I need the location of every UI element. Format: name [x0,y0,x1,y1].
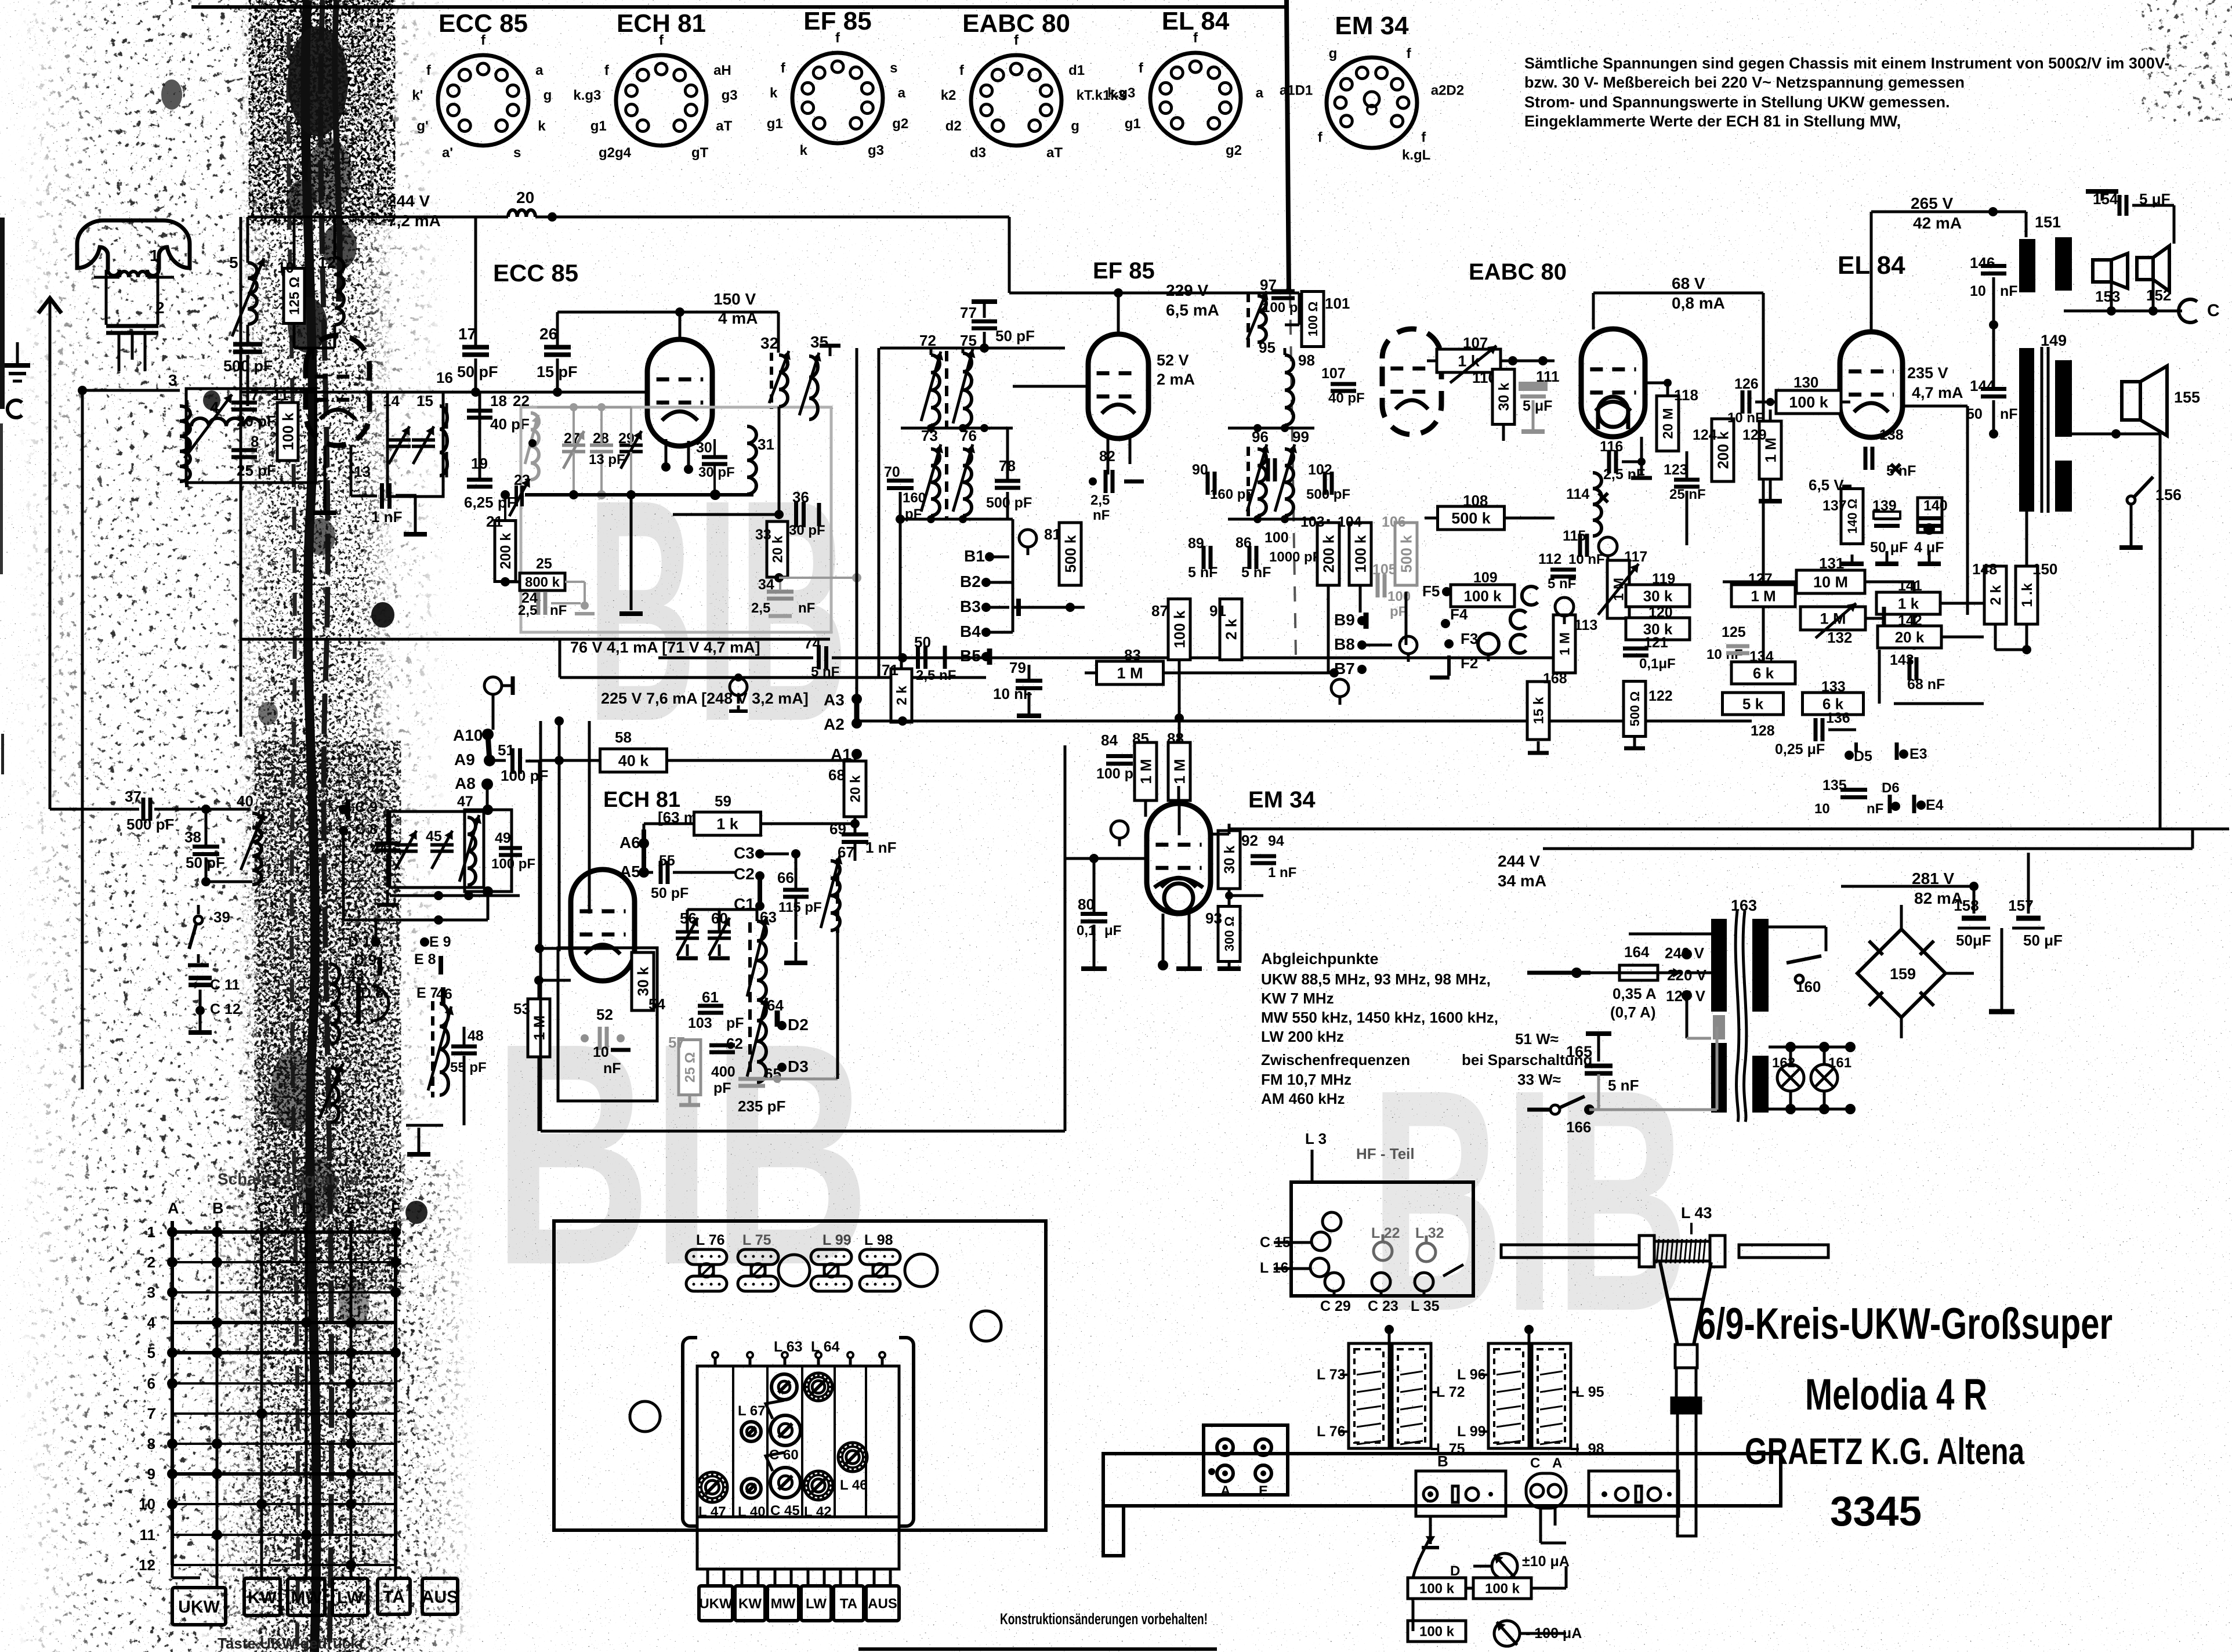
svg-text:100 k: 100 k [1171,610,1188,649]
junction [548,212,557,222]
svg-text:98: 98 [1298,352,1315,369]
svg-text:123: 123 [1664,462,1688,478]
wire grid drop 1016 [588,721,591,914]
svg-text:500 Ω: 500 Ω [1628,691,1642,726]
svg-text:46: 46 [436,986,452,1002]
cap 107b 40pF [1331,382,1356,386]
cap 62 400pF [709,1044,735,1048]
svg-text:161: 161 [1828,1055,1851,1071]
coil can pin group2 [1528,1332,1531,1343]
IF transformer 76 [963,449,972,516]
IF transformer 73 [931,449,940,516]
wire meas from B [1429,1516,1432,1537]
coil 32 [779,355,788,407]
svg-text:Sämtliche Spannungen sind gege: Sämtliche Spannungen sind gegen Chassis … [1524,55,2169,72]
svg-text:LW 200 kHz: LW 200 kHz [1261,1028,1344,1045]
wire speaker bus C [2064,310,2182,313]
svg-text:C 23: C 23 [1368,1298,1398,1314]
svg-text:30 pF: 30 pF [698,465,735,480]
svg-text:52: 52 [596,1006,613,1023]
coil 43 [331,964,339,1044]
svg-text:159: 159 [1890,965,1916,983]
svg-text:B: B [1437,1452,1448,1470]
osc coil 64 [757,1000,766,1082]
svg-text:L 76: L 76 [696,1232,725,1248]
cap 138 5nF [1864,447,1868,470]
svg-text:229 V: 229 V [1166,281,1208,299]
wire 148-150 [1995,434,1996,566]
wire cathode down [324,445,327,510]
svg-text:40 k: 40 k [618,752,650,770]
svg-text:L 95: L 95 [1575,1384,1604,1400]
button AUS 2 [866,1586,899,1621]
svg-text:97: 97 [1260,276,1277,294]
wires 44-49 bottom [390,894,520,897]
svg-text:51: 51 [498,741,514,759]
cap 158 50uF [1962,916,1986,921]
coil 12 [335,258,344,325]
svg-text:200 k: 200 k [1714,431,1731,469]
svg-text:B7: B7 [1334,660,1355,678]
svg-text:148: 148 [1972,560,1997,578]
svg-text:D 9: D 9 [354,952,376,969]
svg-text:50 μF: 50 μF [1870,539,1908,556]
svg-text:35: 35 [810,333,828,351]
svg-text:120: 120 [1648,604,1673,621]
wire osc to D [750,1078,838,1081]
svg-text:1 k: 1 k [1898,595,1919,612]
svg-text:4: 4 [210,398,219,416]
svg-text:Zwischenfrequenzen: Zwischenfrequenzen [1261,1051,1410,1068]
svg-text:20 M: 20 M [1661,408,1676,439]
terminal D6 [1891,802,1900,811]
resistor 110 30k [1492,369,1514,425]
cap 157 50uF [2016,916,2041,921]
wires feedback net [1795,672,1879,673]
wire left rail bottom [79,808,139,811]
resistor 87 100k [1168,599,1190,660]
tuner box [697,1366,899,1517]
trimmer 56 [676,930,699,934]
resistor 130 100k [1776,390,1841,414]
wire bus 76V [658,657,813,660]
svg-text:C3: C3 [734,844,755,862]
cap 49 100pF [499,846,522,850]
transformer 163 core [1735,911,1739,1122]
tap 240V [1682,949,1692,959]
svg-text:1 M: 1 M [1137,759,1154,784]
wire EL84 cath [1858,437,1860,499]
coil 114 [1593,473,1601,536]
svg-text:C: C [2207,301,2220,320]
svg-text:113: 113 [1574,617,1597,633]
coil 5 [248,263,257,324]
wire speaker drop [2146,433,2160,436]
coil can L73 [1349,1343,1389,1448]
svg-text:g2: g2 [1226,143,1242,158]
svg-text:13 pF: 13 pF [589,452,625,468]
button AUS [422,1578,458,1614]
wire to transformer 3 [82,389,180,392]
big section box bottom [541,1130,1065,1133]
fuse 164 [1619,965,1658,980]
svg-text:7: 7 [251,386,259,404]
cap 24 2,5nF [537,592,541,615]
antenna mast [1676,1368,1696,1398]
svg-text:3: 3 [168,371,177,389]
cap 7 20pF [231,401,257,405]
svg-text:500 k: 500 k [1061,535,1079,573]
svg-text:23: 23 [514,472,530,488]
scan speckle band mid [261,766,394,1265]
svg-text:61: 61 [702,988,719,1006]
scan blobs [288,26,348,136]
wire anode up [313,359,338,360]
svg-text:20 k: 20 k [770,535,786,563]
svg-text:5: 5 [229,253,238,271]
svg-text:g': g' [416,118,428,134]
svg-text:GRAETZ K.G. Altena: GRAETZ K.G. Altena [1745,1430,2024,1472]
svg-text:A6: A6 [619,834,640,852]
svg-text:5 k: 5 k [1742,695,1764,712]
svg-text:8: 8 [251,433,259,450]
hole 4 chassis [630,1401,660,1432]
svg-text:C 9: C 9 [355,799,378,816]
svg-text:235 pF: 235 pF [738,1097,785,1115]
svg-text:1: 1 [147,1223,155,1241]
EABC80 triode tube [1581,329,1645,437]
svg-text:104: 104 [1338,514,1362,530]
switch 39 [197,905,200,914]
svg-text:nF: nF [2000,406,2018,422]
svg-text:140: 140 [1923,498,1948,514]
cap 123 25nF [1674,478,1700,482]
svg-text:139: 139 [1872,498,1897,514]
resistor 133 6k [1803,693,1864,715]
svg-text:76 V 4,1 mA [71 V 4,7 mA]: 76 V 4,1 mA [71 V 4,7 mA] [570,639,760,656]
wire grid EL84 [1850,401,1851,403]
svg-text:3: 3 [147,1284,155,1301]
svg-text:Strom- und Spannungswerte in S: Strom- und Spannungswerte in Stellung UK… [1524,93,1950,111]
tap 127V [1682,990,1692,1001]
antenna symbol arrow [38,298,61,313]
svg-text:15 k: 15 k [1531,697,1547,724]
svg-text:d2: d2 [945,118,962,134]
svg-text:f: f [1407,46,1412,61]
svg-text:53: 53 [513,1000,530,1017]
wire down 87 88 [1178,660,1181,742]
cap 74 5nF [817,646,821,669]
button TA [378,1578,410,1614]
svg-text:100 k: 100 k [1351,535,1369,573]
cap 80 0,1uF [1081,912,1107,916]
cap 86 5nF [1248,546,1252,569]
svg-text:50 pF: 50 pF [651,885,689,901]
svg-text:3345: 3345 [1830,1488,1922,1535]
svg-text:31: 31 [758,436,774,453]
wire A8 down [561,829,562,900]
wire grid line [556,358,559,392]
svg-text:D: D [302,1200,313,1217]
svg-text:17: 17 [458,325,476,343]
svg-text:2: 2 [155,299,165,317]
svg-text:s: s [890,60,897,76]
resistor 93 300Ω [1218,907,1240,962]
svg-text:k2: k2 [941,88,956,103]
svg-text:102: 102 [1308,462,1332,478]
input coil 4 [191,418,261,426]
cap 6 500pF [233,342,262,347]
svg-text:80: 80 [1078,896,1095,913]
coil can L96 [1488,1343,1529,1448]
svg-text:Melodia 4 R: Melodia 4 R [1805,1370,1987,1419]
svg-text:12: 12 [139,1556,155,1574]
svg-text:E 9: E 9 [429,934,451,950]
chassis rail [1103,1454,1781,1506]
svg-text:44: 44 [371,841,387,857]
wires IF right [1247,293,1250,296]
IF coil 95 [1258,296,1266,342]
osc coil 67 [831,861,840,930]
svg-text:Konstruktionsänderungen vorbeh: Konstruktionsänderungen vorbehalten! [1000,1610,1208,1628]
coil L98 top [860,1249,900,1265]
svg-text:49: 49 [495,830,511,846]
knob top L63 [771,1374,797,1400]
cap 79 10nF [1016,679,1042,683]
tuner bracket left [683,1338,697,1526]
page left edge mark [0,218,5,409]
resistor 109 100k [1451,585,1514,607]
tube socket EF 85 [792,53,883,143]
svg-text:100: 100 [1264,530,1289,546]
svg-text:bzw. 30 V- Meßbereich bei 220: bzw. 30 V- Meßbereich bei 220 V~ Netzspa… [1524,74,1965,91]
wire EABC anode [1592,293,1595,329]
wire 38-40 bottom [206,881,252,883]
jack A10 line [484,677,502,694]
knob top L64 dark [805,1373,832,1401]
tuner columns [732,1366,734,1517]
wire grid to box [306,389,316,392]
box 14-16 [387,392,443,497]
svg-text:100 Ω: 100 Ω [1306,302,1320,336]
cap 97 100pF [1271,289,1295,294]
svg-text:15: 15 [416,392,433,410]
svg-text:138: 138 [1879,427,1904,443]
cap 18 40pF [467,409,492,413]
button MW [288,1578,325,1615]
svg-text:F4: F4 [1450,606,1468,623]
resistor 88 1M [1168,742,1190,800]
wire 106 gray [1405,522,1407,586]
svg-text:LW: LW [806,1596,827,1612]
resistor 10 125Ω [284,269,305,324]
cap 37 500pF [142,798,146,821]
svg-text:L 67: L 67 [738,1403,766,1419]
resistor 141 1k [1876,592,1940,614]
svg-text:83: 83 [1124,646,1141,664]
svg-text:g1: g1 [767,116,783,132]
svg-text:166: 166 [1566,1118,1591,1136]
svg-text:KW: KW [738,1596,762,1612]
transformer 151 winding A [2019,239,2035,292]
svg-text:F2: F2 [1461,654,1478,672]
svg-text:EF 85: EF 85 [1093,258,1155,284]
svg-text:ECC 85: ECC 85 [493,259,578,287]
HF-Teil box [1291,1182,1473,1296]
pot 107 1k [1437,349,1501,372]
svg-text:5 μF: 5 μF [1523,398,1552,414]
button KW 2 [735,1586,765,1621]
svg-text:42 mA: 42 mA [1913,214,1962,232]
svg-text:nF: nF [2000,283,2018,299]
varcap 45 [430,843,454,847]
svg-text:d1: d1 [1068,63,1085,78]
cap 111 5uF [1520,387,1546,391]
svg-text:129: 129 [1742,427,1767,443]
svg-text:500 k: 500 k [1451,510,1491,527]
svg-text:L 72: L 72 [1436,1384,1465,1400]
svg-text:126: 126 [1734,376,1759,392]
svg-text:MW: MW [771,1596,796,1612]
svg-text:68 V: 68 V [1672,274,1705,292]
speaker 153 [2093,260,2111,282]
switch matrix grid [171,1221,174,1565]
svg-text:C 8: C 8 [355,821,378,838]
svg-text:B1: B1 [964,547,985,565]
svg-text:10 nF: 10 nF [993,685,1032,702]
wire speaker down [2146,434,2147,464]
cap 116 2,5nF [1607,450,1611,473]
svg-text:68: 68 [828,766,845,784]
svg-text:150 V: 150 V [713,290,756,308]
svg-text:117: 117 [1624,549,1647,565]
coil L99 top [811,1249,852,1265]
section box left edge [539,721,542,1131]
cap 78 500pF [995,479,1020,483]
svg-text:50μF: 50μF [1956,932,1991,949]
wire antenna down [81,390,84,1089]
svg-text:1 M: 1 M [530,1015,548,1040]
resistor 59 1k [694,812,761,835]
coil L76 top [686,1249,727,1265]
meter uA100 [1494,1621,1520,1646]
svg-text:k: k [800,143,808,158]
cap 36 30pF [673,513,779,516]
svg-text:A: A [1552,1455,1562,1471]
svg-text:160: 160 [903,490,926,506]
wire B3 junction [1013,606,1085,609]
wire A5 right [644,871,653,874]
varcap 44 [394,843,418,847]
svg-text:20: 20 [516,189,534,206]
resistor 25 800k [520,573,565,590]
svg-text:235 V: 235 V [1907,364,1948,382]
svg-text:90: 90 [1192,462,1208,478]
cap 26 15pF [544,345,571,350]
svg-text:2 mA: 2 mA [1157,371,1195,388]
svg-text:300 Ω: 300 Ω [1222,916,1237,951]
svg-text:168: 168 [1543,671,1567,687]
svg-text:68 nF: 68 nF [1907,676,1945,693]
gray top bus [537,406,631,408]
wire right vert 1515 [878,348,881,678]
svg-text:MW 550 kHz, 1450 kHz, 160: MW 550 kHz, 1450 kHz, 1600 kHz, [1261,1009,1498,1026]
trimmer box 44-45 [390,811,484,887]
connector box B [1416,1471,1506,1516]
svg-text:0,1μF: 0,1μF [1639,656,1676,672]
svg-text:50: 50 [914,633,931,651]
svg-text:L 99: L 99 [822,1232,852,1248]
wire EL84 anode [1870,212,1873,332]
svg-text:L 64: L 64 [811,1339,840,1355]
cap 115 10nF [1578,534,1582,557]
svg-text:L 35: L 35 [1411,1298,1440,1314]
svg-text:160: 160 [1796,978,1821,995]
svg-text:21: 21 [486,513,503,530]
scan speckle grid zone [197,1160,476,1652]
svg-text:115 pF: 115 pF [778,900,822,915]
svg-text:B3: B3 [960,597,981,615]
svg-text:142: 142 [1898,613,1922,629]
svg-text:131: 131 [1819,555,1844,572]
cap 125 10nF [1726,644,1749,649]
wire 110 down [1502,425,1505,441]
svg-text:155: 155 [2174,389,2200,406]
button UKW [172,1588,226,1625]
coil 40 [252,813,262,885]
svg-text:f: f [1318,130,1323,146]
resistor 118 20M [1657,396,1679,451]
svg-text:25: 25 [536,556,552,572]
IF transformer 75 [963,353,972,427]
wire EM34 top [1177,786,1180,803]
hole 1 chassis [778,1255,810,1286]
svg-text:74: 74 [804,635,821,652]
cap 19 6,25pF [467,478,492,482]
cap 140 4uF [1916,516,1942,520]
svg-text:B5: B5 [960,647,981,665]
svg-text:5 nF: 5 nF [1188,564,1218,581]
svg-text:10: 10 [139,1495,155,1513]
oscillator shield box [521,407,831,632]
svg-text:107: 107 [1463,334,1488,352]
trimmer 28 [590,444,613,447]
svg-text:101: 101 [1325,295,1350,312]
HF slash [1443,1265,1463,1276]
cap 69 1nF [842,832,868,836]
svg-text:±10 μA: ±10 μA [1522,1553,1570,1570]
cap C11 [198,970,199,978]
svg-text:g2g4: g2g4 [599,145,632,161]
wire A2 bus [857,720,1752,723]
svg-text:(0,7 A): (0,7 A) [1610,1003,1656,1021]
svg-text:F3: F3 [1461,630,1478,647]
svg-text:f: f [481,32,486,48]
svg-text:146: 146 [1970,254,1995,271]
svg-text:D6: D6 [1882,780,1900,796]
button UKW 2 [699,1586,733,1621]
transformer 163 sec bottom [1752,1056,1769,1113]
cap 30 30pF [702,455,727,459]
svg-text:119: 119 [1652,571,1675,587]
antenna dipole [77,220,190,270]
svg-text:45: 45 [426,828,442,845]
transformer 149 primary [2019,348,2034,512]
svg-text:L 22: L 22 [1371,1225,1400,1241]
svg-text:Schalterdiagramm: Schalterdiagramm [218,1170,359,1188]
tube socket EL 84 [1150,53,1241,143]
svg-text:C 12: C 12 [210,1001,241,1017]
